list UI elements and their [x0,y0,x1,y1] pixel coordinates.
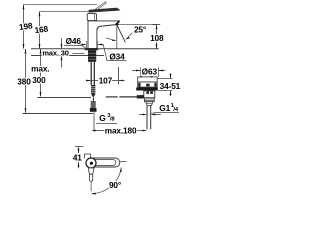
svg-text:Ø63: Ø63 [142,67,158,77]
hose connector 2 (threaded) [91,101,96,108]
25deg leader arrow toward stream [125,37,130,40]
water stream 25 deg line [117,25,126,42]
dimension 168 line [39,12,41,49]
dimension 108 [153,24,161,26]
faucet base plinth [85,48,98,50]
wire: max300 end line [37,97,91,99]
svg-text:108: 108 [150,33,164,43]
countertop deck top line [31,48,159,50]
wire: outlet plumb line [116,25,118,49]
side view: inner capsule [93,160,116,166]
svg-text:107: 107 [99,75,113,85]
wire: outlet horizontal reference [119,24,157,26]
side view: capsule body [88,158,120,167]
spout underside line [97,25,116,30]
drain seal dark band [136,88,158,91]
plug nubs [140,76,142,77]
side view: funnel outlet [88,168,94,174]
svg-text:max.: max. [31,64,49,74]
svg-text:G1: G1 [159,103,170,113]
drain plug cap [138,77,158,82]
svg-text:max. 30: max. 30 [42,48,68,57]
dimension Ø63 [140,67,142,77]
svg-text:380: 380 [17,77,31,87]
svg-text:41: 41 [73,153,82,163]
wire: 380 end line [23,113,94,115]
wire: hose link to connector 2 [92,98,94,101]
spout mouth dark face [116,21,120,25]
svg-text:25°: 25° [134,25,146,35]
extension line right of base [97,41,99,49]
wire: hose2 extension line down [93,112,95,132]
lever ball joint [137,95,144,98]
dimension max.180 [91,130,95,132]
faucet body outline [88,21,119,49]
dimension max.30 deck thickness [61,38,63,48]
circle center dot [90,162,93,165]
dimension G1 1/4 arrows [139,114,145,116]
connector 2 cap [90,108,97,112]
dimension 198 line [23,5,25,49]
drain flange mid section [138,82,158,87]
dimension 41 [75,146,83,148]
wire: capsule centreline tick [120,161,127,163]
90° swivel arc [92,168,122,194]
connector 1 tip [92,95,96,98]
extension line left of base [86,41,88,49]
pop-up rod [118,67,120,84]
pop-up lever horizontal rod [106,96,118,98]
base width arrow left [81,44,86,46]
drain threaded section [144,98,154,102]
drain body [144,91,155,98]
wire: top reference line A (height 198 level) [24,4,97,6]
label Ø34 with underline leader [98,44,127,60]
dimension 34-51 [158,78,173,80]
hose connector 1 (threaded) [91,85,95,95]
svg-text:168: 168 [34,24,49,36]
cap notch line [93,14,95,21]
svg-text:34-51: 34-51 [160,81,181,91]
drain tailpipe [146,105,148,129]
faucet lever cap [87,14,96,21]
drain taper [146,102,153,106]
svg-text:198: 198 [18,20,33,32]
svg-text:300: 300 [32,75,46,85]
wire: funnel extension line [90,182,92,191]
dimension 107 [86,80,91,82]
svg-text:Ø46: Ø46 [66,36,82,46]
supply hose 1 [90,62,92,85]
supply hose 2 [93,62,95,85]
wire: Ø46 underline leader [64,46,86,49]
dimension 380 line [25,49,27,113]
threaded shank + locknut below deck [88,50,96,62]
svg-text:Ø34: Ø34 [109,51,125,61]
svg-text:90°: 90° [109,180,121,190]
side view: top tab [85,154,91,158]
svg-text:G: G [99,113,105,123]
wire: reference line B (height 168 level) [40,11,89,13]
dimension max.300 line [40,49,42,97]
side view: circle boss [86,158,96,168]
faucet lever blade [89,8,120,12]
countertop deck bottom line [31,55,104,57]
svg-text:max.180: max.180 [105,125,137,135]
aerator blob [116,24,119,26]
faucet raised lever (phantom) [93,2,107,12]
25deg arrow toward plumb line [106,38,112,40]
wire: max.30 leader tick [73,53,85,55]
